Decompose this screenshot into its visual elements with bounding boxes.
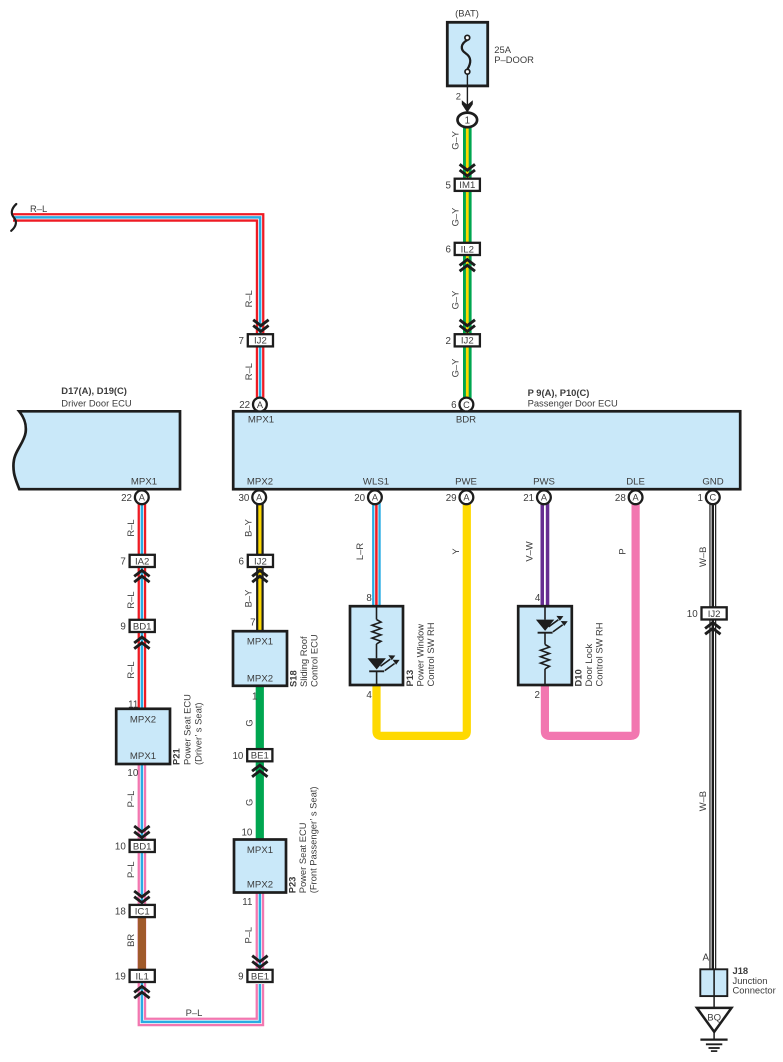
svg-text:2: 2	[456, 90, 461, 101]
svg-text:MPX1: MPX1	[248, 415, 274, 426]
svg-text:P–L: P–L	[242, 927, 253, 944]
label W-B below node 1C	[697, 547, 708, 567]
wire V-W from node 21(A) to D10 pin 4	[541, 503, 550, 607]
label R-L below BD1	[125, 661, 136, 678]
junction connector J18 box	[700, 969, 727, 996]
svg-text:Door Lock: Door Lock	[583, 643, 594, 686]
svg-text:BD1: BD1	[133, 621, 152, 632]
svg-text:BQ: BQ	[707, 1012, 721, 1023]
wire B-Y from node 30(A) to S18 MPX1	[256, 503, 264, 632]
wire L-R from node 20(A) to P13 pin 8	[372, 503, 381, 607]
arrow solid into connector 1	[462, 100, 473, 112]
svg-text:IJ2: IJ2	[254, 336, 267, 347]
svg-text:Power Window: Power Window	[415, 624, 426, 687]
svg-text:(Driver’ s Seat): (Driver’ s Seat)	[193, 702, 204, 765]
label G below BE1	[243, 799, 254, 806]
node 28 A bottom	[615, 490, 643, 504]
label P-L on bottom horizontal run	[186, 1007, 203, 1018]
arrow chevrons down on R-L above IJ2 pin 7	[253, 320, 268, 332]
wire break squiggle at R-L wire start	[11, 204, 16, 231]
node 1 C bottom	[698, 490, 720, 504]
label P-L below P21	[125, 791, 136, 808]
label G below S18	[243, 719, 254, 726]
svg-text:L–R: L–R	[354, 543, 365, 560]
svg-text:R–L: R–L	[125, 591, 136, 608]
svg-text:P–DOOR: P–DOOR	[494, 54, 534, 65]
pin 10 of P21	[127, 768, 138, 779]
ground symbol	[700, 1040, 727, 1052]
svg-text:9: 9	[120, 622, 125, 633]
svg-text:P–L: P–L	[125, 791, 136, 808]
arrow chevrons down on P-L above BE1 pin 9	[252, 956, 267, 968]
svg-text:P–L: P–L	[186, 1007, 203, 1018]
label G-Y segment 1	[449, 130, 460, 150]
svg-text:P21: P21	[171, 748, 182, 765]
svg-text:IJ2: IJ2	[708, 609, 721, 620]
arrow chevrons up on G below BE1 pin 10	[252, 765, 267, 777]
label P on pink wire	[617, 548, 628, 554]
svg-text:22: 22	[239, 400, 250, 411]
svg-text:MPX2: MPX2	[130, 714, 156, 725]
junction IM1 pin 5	[445, 179, 479, 192]
junction IJ2 pin 6	[239, 555, 273, 568]
svg-text:A: A	[256, 493, 263, 503]
svg-text:11: 11	[242, 897, 252, 908]
svg-text:10: 10	[115, 842, 126, 853]
fuse 25A P-DOOR	[447, 22, 487, 86]
svg-text:R–L: R–L	[125, 519, 136, 536]
svg-text:5: 5	[445, 180, 451, 191]
svg-text:IM1: IM1	[459, 180, 475, 191]
label J18 Junction Connector	[733, 965, 776, 995]
node 6 C top of passenger ECU	[451, 398, 473, 412]
svg-text:Power Seat ECU: Power Seat ECU	[297, 822, 308, 893]
wire P-L from P23 MPX2 to BE1 pin 9	[256, 891, 265, 970]
svg-text:MPX1: MPX1	[131, 476, 157, 487]
svg-text:29: 29	[446, 493, 457, 504]
junction BD1 pin 9	[120, 620, 154, 633]
svg-text:A: A	[139, 493, 146, 503]
label B-Y below node 30A	[242, 518, 253, 536]
svg-text:A: A	[702, 952, 709, 963]
svg-text:P23: P23	[287, 877, 298, 894]
svg-text:MPX1: MPX1	[130, 751, 156, 762]
label (BAT)	[455, 8, 479, 19]
svg-text:Sliding Roof: Sliding Roof	[298, 636, 309, 687]
svg-text:1: 1	[252, 691, 257, 702]
Driver Door ECU box D17(A) D19(C) with torn edge	[13, 411, 180, 489]
wire P-L from P21 pin 10 to BE1 pin 9 via bottom run	[142, 763, 260, 1022]
svg-text:C: C	[709, 493, 716, 503]
svg-text:IL2: IL2	[461, 244, 474, 255]
label V-W below node 21A	[524, 541, 535, 561]
svg-text:A: A	[541, 493, 548, 503]
svg-text:R–L: R–L	[243, 363, 254, 380]
arrow chevrons up on R-L below IA2	[134, 571, 149, 583]
svg-text:P–L: P–L	[125, 861, 136, 878]
label D10 Door Lock Control SW RH	[573, 622, 605, 686]
label G-Y segment 4	[449, 358, 460, 378]
pin 4 of P13	[366, 690, 372, 701]
svg-text:R–L: R–L	[30, 203, 47, 214]
junction IJ2 pin 7 on R-L	[239, 334, 273, 347]
svg-text:V–W: V–W	[524, 541, 535, 561]
svg-text:A: A	[372, 493, 379, 503]
label R-L below IA2	[125, 591, 136, 608]
power window control switch P13 box	[350, 606, 403, 685]
svg-text:10: 10	[232, 751, 243, 762]
pin 11 of P23	[242, 897, 252, 908]
pin 2 of D10	[535, 690, 540, 701]
svg-text:18: 18	[115, 907, 126, 918]
arrow chevrons up on W-B below IJ2 pin 10	[705, 623, 720, 635]
node 29 A bottom	[446, 490, 474, 504]
junction IJ2 pin 10	[687, 607, 727, 620]
label R-L on horizontal wire	[30, 203, 47, 214]
svg-text:Control ECU: Control ECU	[309, 634, 320, 687]
pin 4 of D10	[535, 593, 541, 604]
pin 1 of S18	[252, 691, 257, 702]
arrow chevrons down on P-L above IC1	[134, 891, 149, 903]
svg-text:20: 20	[354, 493, 365, 504]
node 20 A bottom	[354, 490, 382, 504]
svg-text:(Front Passenger’ s Seat): (Front Passenger’ s Seat)	[308, 786, 319, 893]
junction IA2 pin 7	[120, 555, 154, 568]
label P21 Power Seat ECU (Driver s Seat)	[171, 694, 204, 765]
label R-L segment above IJ2 pin 7	[243, 290, 254, 307]
arrow chevrons up on P-L below IL1	[134, 987, 149, 999]
label G-Y segment 3	[449, 290, 460, 310]
wire R-L driver column from node 22(A) to P21	[138, 503, 147, 710]
svg-text:P13: P13	[404, 670, 415, 687]
svg-text:BDR: BDR	[456, 415, 476, 426]
wire Y yellow from P13 pin 4 to node 29(A)	[377, 503, 467, 736]
svg-text:G: G	[243, 799, 254, 806]
svg-text:Power Seat ECU: Power Seat ECU	[182, 694, 193, 765]
svg-text:Control SW RH: Control SW RH	[425, 622, 436, 686]
power seat ECU P21 box	[116, 709, 170, 764]
label R-L segment below IJ2 pin 7	[243, 363, 254, 380]
svg-text:W–B: W–B	[697, 791, 708, 811]
node 30 A bottom	[238, 490, 266, 504]
node 22 A below driver door ECU	[121, 490, 149, 504]
svg-text:10: 10	[241, 827, 252, 838]
node 22 A top of passenger ECU	[239, 398, 267, 412]
svg-text:19: 19	[115, 972, 126, 983]
svg-text:Driver Door ECU: Driver Door ECU	[61, 398, 132, 409]
svg-text:A: A	[463, 493, 470, 503]
junction IJ2 pin 2	[445, 334, 479, 347]
junction BE1 pin 10	[232, 749, 272, 762]
arrow chevrons down on G-Y above IJ2 pin 2	[460, 320, 475, 332]
svg-text:6: 6	[239, 557, 245, 568]
svg-text:7: 7	[120, 557, 125, 568]
node 21 A bottom	[523, 490, 551, 504]
svg-text:A: A	[633, 493, 640, 503]
svg-text:PWE: PWE	[455, 476, 477, 487]
svg-text:2: 2	[535, 690, 540, 701]
svg-text:6: 6	[451, 400, 457, 411]
svg-text:Passenger Door ECU: Passenger Door ECU	[528, 398, 618, 409]
label G-Y segment 2	[449, 207, 460, 227]
svg-text:Connector: Connector	[733, 984, 776, 995]
svg-text:IJ2: IJ2	[461, 336, 474, 347]
label P23 Power Seat ECU (Front Passenger s Seat)	[287, 786, 319, 893]
ground triangle BQ	[697, 1008, 732, 1032]
pin 11 of P21	[128, 699, 138, 710]
svg-text:MPX2: MPX2	[247, 476, 273, 487]
junction IL1 pin 19	[115, 970, 155, 983]
arrow chevrons up on B-Y below IJ2 pin 6	[252, 571, 267, 583]
svg-text:IL1: IL1	[136, 971, 149, 982]
junction BD1 pin 10	[115, 840, 155, 853]
svg-text:MPX2: MPX2	[247, 879, 273, 890]
wire BR brown segment between IC1 and IL1	[138, 914, 146, 972]
pin 10 of P23	[241, 827, 252, 838]
wire G-Y fuse column from connector 1 to node 6(C)	[463, 126, 472, 401]
svg-text:IJ2: IJ2	[254, 556, 267, 567]
sliding roof control ECU S18 box	[233, 631, 287, 686]
arrow chevrons down on P-L above BD1 pin 10	[134, 826, 149, 838]
svg-text:G–Y: G–Y	[449, 358, 460, 378]
power seat ECU P23 box	[234, 840, 286, 893]
svg-text:D17(A), D19(C): D17(A), D19(C)	[61, 385, 127, 396]
svg-text:BE1: BE1	[251, 971, 269, 982]
label R-L below node 22A	[125, 519, 136, 536]
svg-text:BR: BR	[125, 934, 136, 947]
svg-text:G–Y: G–Y	[449, 290, 460, 310]
svg-text:PWS: PWS	[533, 476, 555, 487]
label B-Y below IJ2 pin 6	[242, 589, 253, 607]
pin 2 of fuse	[456, 90, 461, 101]
svg-text:7: 7	[250, 617, 255, 628]
pin 8 of P13	[366, 593, 372, 604]
label P13 Power Window Control SW RH	[404, 622, 436, 686]
svg-text:DLE: DLE	[626, 476, 645, 487]
label S18 Sliding Roof Control ECU	[288, 634, 320, 687]
svg-text:P: P	[617, 548, 628, 554]
wire W-B from node 1(C) to junction connector J18	[709, 503, 716, 970]
junction IC1 pin 18	[115, 905, 155, 918]
svg-text:30: 30	[238, 493, 249, 504]
wire thin from fuse to connector 1	[466, 74, 468, 113]
label BR between IC1 and IL1	[125, 934, 136, 947]
svg-text:C: C	[463, 400, 470, 410]
svg-text:1: 1	[465, 116, 470, 127]
svg-text:R–L: R–L	[125, 661, 136, 678]
svg-text:B–Y: B–Y	[242, 589, 253, 607]
svg-text:8: 8	[366, 593, 372, 604]
arrow chevrons up on G-Y below IL2	[460, 260, 475, 272]
svg-text:W–B: W–B	[697, 547, 708, 567]
svg-text:6: 6	[445, 245, 451, 256]
label W-B below IJ2 pin 10	[697, 791, 708, 811]
svg-text:22: 22	[121, 493, 132, 504]
pin A of J18	[702, 952, 709, 963]
svg-text:MPX1: MPX1	[247, 845, 273, 856]
svg-text:S18: S18	[288, 670, 299, 687]
svg-text:7: 7	[239, 336, 244, 347]
svg-text:2: 2	[445, 336, 450, 347]
label P 9(A), P10(C) Passenger Door ECU	[528, 387, 618, 408]
svg-text:IA2: IA2	[135, 556, 149, 567]
svg-text:IC1: IC1	[135, 906, 150, 917]
svg-text:10: 10	[127, 768, 138, 779]
svg-text:10: 10	[687, 609, 698, 620]
svg-text:A: A	[257, 400, 264, 410]
junction IL2 pin 6	[445, 243, 479, 256]
wire thin line J18 through ground triangle to ground	[713, 969, 715, 1040]
wire R-L from driver door ECU (off-page) to node 22(A)	[13, 217, 260, 401]
svg-text:MPX2: MPX2	[247, 673, 273, 684]
Passenger Door ECU box P9(A) P10(C)	[233, 411, 740, 489]
label D17(A), D19(C) Driver Door ECU	[61, 385, 132, 408]
svg-text:21: 21	[523, 493, 534, 504]
svg-text:R–L: R–L	[243, 290, 254, 307]
svg-text:Control SW RH: Control SW RH	[594, 622, 605, 686]
svg-text:9: 9	[238, 972, 243, 983]
label Y on yellow wire	[450, 548, 461, 555]
label P-L below P23	[242, 927, 253, 944]
svg-text:4: 4	[366, 690, 372, 701]
svg-text:D10: D10	[573, 669, 584, 686]
svg-text:WLS1: WLS1	[363, 476, 389, 487]
door lock control switch D10 box	[518, 606, 572, 685]
svg-text:(BAT): (BAT)	[455, 8, 479, 19]
svg-text:GND: GND	[702, 476, 723, 487]
svg-text:MPX1: MPX1	[247, 637, 273, 648]
svg-text:BE1: BE1	[251, 751, 269, 762]
arrow chevrons up on R-L below BD1 pin 9	[134, 637, 149, 649]
svg-text:1: 1	[698, 493, 703, 504]
wire G green from S18 MPX2 to P23 MPX1 through BE1	[256, 684, 264, 841]
label 25A P-DOOR	[494, 44, 534, 65]
svg-text:Y: Y	[450, 548, 461, 555]
svg-text:G–Y: G–Y	[449, 130, 460, 150]
wire P pink from D10 pin 2 to node 28(A)	[545, 503, 636, 736]
svg-text:B–Y: B–Y	[242, 518, 253, 536]
svg-text:28: 28	[615, 493, 626, 504]
arrow chevrons down on G-Y above IM1	[460, 164, 475, 176]
pin 7 of S18	[250, 617, 255, 628]
label P-L below BD1 pin 10	[125, 861, 136, 878]
label L-R below node 20A	[354, 543, 365, 560]
junction BE1 pin 9	[238, 970, 272, 983]
svg-text:G: G	[243, 719, 254, 726]
svg-text:4: 4	[535, 593, 541, 604]
connector 1 oval	[458, 113, 478, 128]
svg-text:G–Y: G–Y	[449, 207, 460, 227]
svg-text:BD1: BD1	[133, 841, 152, 852]
